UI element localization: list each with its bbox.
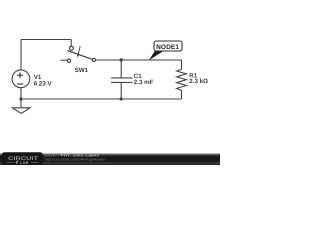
wire SW1 top stub: [70, 40, 72, 47]
svg-text:NODE1: NODE1: [156, 44, 179, 51]
wire mid rail SW1 to R1 corner: [96, 59, 182, 61]
node junction dot C1 top: [120, 58, 123, 61]
lever: [67, 51, 92, 60]
ground: [13, 108, 31, 114]
node NODE1 flag pointer: [149, 51, 164, 60]
svg-text:2.3 kΩ: 2.3 kΩ: [189, 78, 208, 85]
wire bottom rail: [21, 98, 182, 100]
watermark logo LAB row: [7, 161, 39, 163]
node junction dot C1 bottom: [120, 97, 123, 100]
top terminal circle: [70, 46, 74, 50]
wire R1 top lead: [181, 60, 183, 70]
wire left vertical to V1: [20, 40, 22, 71]
wire C1 top stem: [120, 60, 122, 77]
capacitor C1 plates: [111, 77, 133, 79]
wire top from V1 to SW1: [21, 39, 71, 41]
svg-text:http://circuitlab.com/c4kmtqp6: http://circuitlab.com/c4kmtqp6ked3y: [45, 158, 106, 162]
resistor R1 zigzag: [177, 70, 187, 91]
wire ground stub: [20, 99, 22, 108]
left throw circle: [67, 59, 70, 62]
node junction dot V1/bottom rail: [19, 97, 22, 100]
svg-text:SW1: SW1: [75, 67, 89, 74]
svg-text:6.23 V: 6.23 V: [34, 80, 53, 87]
watermark logo box: [2, 152, 43, 165]
wire V1 bottom: [20, 88, 22, 100]
voltage source V1: [12, 70, 30, 88]
node NODE1 box: [154, 41, 182, 51]
svg-text:2.3 mF: 2.3 mF: [134, 79, 154, 86]
svg-text:LAB: LAB: [20, 160, 29, 165]
right terminal circle: [92, 58, 95, 61]
wire C1 bottom stem: [120, 82, 122, 99]
wire SW1 open throw stub: [61, 59, 68, 61]
wire R1 bottom lead: [181, 90, 183, 99]
actuation arrow: [78, 46, 80, 54]
switch SW1: [67, 46, 95, 62]
